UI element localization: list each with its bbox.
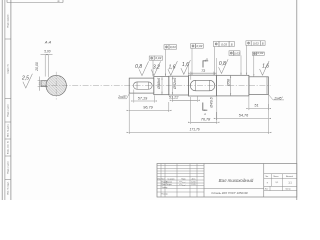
S2 internal diameter dim line: [161, 77, 163, 94]
svg-text:Т.контр.: Т.контр.: [162, 187, 169, 189]
tolerance frame F1: [149, 56, 154, 60]
roughness 3,2 on S2: [151, 61, 161, 75]
svg-text:Подп. и дата: Подп. и дата: [8, 104, 10, 117]
svg-text:Лист: Лист: [161, 178, 165, 180]
svg-text:Б: Б: [231, 42, 233, 46]
keyway width dim (top of A-A): [44, 55, 46, 77]
roughness 1,6 on S3/S4: [181, 60, 191, 74]
title block outline: [157, 164, 297, 198]
dim 73 (keyway S4 length, above): [190, 72, 192, 80]
svg-text:0,03: 0,03: [196, 44, 202, 48]
tolerance frame F4: [213, 41, 219, 46]
svg-text:51,22: 51,22: [169, 96, 179, 100]
svg-text:3,2: 3,2: [153, 64, 160, 70]
shaft section S6: [249, 77, 269, 95]
svg-text:Ø58: Ø58: [227, 78, 231, 87]
tolerance frame F5: [229, 51, 234, 56]
chamfer line at S6 right end: [266, 77, 268, 95]
shaft section S4: [188, 75, 216, 96]
svg-text:0,03: 0,03: [257, 51, 263, 55]
svg-text:Листов: Листов: [285, 189, 290, 191]
svg-text:0,03: 0,03: [221, 42, 227, 46]
svg-text:12.05: 12.05: [191, 181, 195, 183]
roughness 1,6 on S6: [260, 61, 270, 75]
dim 171,76 overall: [128, 112, 130, 134]
chamfer 2x45 right: [268, 94, 273, 100]
svg-text:Масштаб: Масштаб: [286, 176, 293, 178]
diameter dim inside S5: [230, 75, 232, 96]
svg-text:2х45°: 2х45°: [273, 96, 283, 100]
keyway on S1 (stadium): [133, 82, 152, 89]
svg-text:57,19: 57,19: [138, 96, 148, 100]
svg-text:А-А: А-А: [44, 41, 52, 45]
dim 96,79: [128, 93, 130, 112]
svg-text:2,5: 2,5: [21, 76, 29, 82]
svg-text:Масса: Масса: [274, 176, 279, 178]
roughness 0,8 on S1: [139, 61, 149, 75]
svg-text:5,00: 5,00: [44, 49, 50, 53]
svg-text:20,00: 20,00: [35, 62, 39, 72]
roughness 2,5 (section A-A): [23, 74, 33, 88]
title block horizontal lines (left part): [157, 165, 204, 167]
svg-text:Лит.: Лит.: [265, 176, 269, 178]
svg-text:Инв. № подл.: Инв. № подл.: [7, 181, 10, 194]
svg-text:0,03: 0,03: [234, 51, 240, 55]
svg-text:Подп. и дата: Подп. и дата: [8, 161, 10, 174]
svg-text:73: 73: [201, 69, 205, 73]
svg-text:Взам. инв. №: Взам. инв. №: [7, 140, 10, 154]
tolerance frame F2: [164, 45, 169, 50]
sheet outer edge (left double line): [1, 0, 3, 200]
svg-text:171,76: 171,76: [190, 127, 200, 131]
svg-text:Подп.: Подп.: [181, 178, 186, 180]
svg-text:0,8: 0,8: [135, 64, 142, 70]
svg-text:Инв. № дубл.: Инв. № дубл.: [7, 124, 10, 137]
svg-text:Дата: Дата: [192, 178, 196, 180]
material line (graph 3): [204, 188, 264, 190]
svg-text:1,6: 1,6: [262, 63, 269, 69]
section cut mark A (lower): [203, 103, 208, 111]
svg-text:А: А: [203, 112, 206, 116]
svg-text:0,03: 0,03: [253, 41, 259, 45]
keyway notch on section A-A: [41, 80, 48, 82]
title block right part lines: [264, 173, 297, 175]
svg-text:Иванов: Иванов: [166, 181, 172, 183]
tolerance frame F3: [191, 44, 196, 49]
top-left corner block (graph 26): [7, 2, 63, 4]
svg-text:Перв. примен.: Перв. примен.: [8, 13, 10, 27]
dim 51 (S6 length): [248, 96, 250, 110]
svg-text:Сталь 40Х ГОСТ 1050-99: Сталь 40Х ГОСТ 1050-99: [211, 191, 247, 195]
tolerance frame F7: [252, 52, 256, 55]
svg-text:Ø49,6: Ø49,6: [210, 96, 214, 108]
svg-text:Петров: Петров: [166, 184, 172, 186]
svg-text:0,03: 0,03: [155, 56, 161, 60]
svg-text:Вал тихоходный: Вал тихоходный: [219, 178, 254, 183]
svg-text:12.05: 12.05: [191, 184, 195, 186]
shaft section S3: [169, 76, 189, 95]
drawing frame right line: [296, 0, 298, 200]
svg-text:0,8: 0,8: [219, 61, 226, 67]
left margin column dividers: [5, 38, 11, 40]
roughness 0,8 on S5: [219, 59, 229, 73]
keyway on S4 (stadium): [190, 80, 215, 91]
dim 54,76 (S5+S6): [215, 112, 217, 120]
svg-text:2х45°: 2х45°: [117, 95, 127, 99]
svg-text:№ докум.: № докум.: [167, 177, 175, 180]
section A-A vertical center line: [55, 72, 57, 100]
S3 internal diameter dim line: [171, 77, 173, 95]
roughness 1,6 on S3: [168, 61, 178, 75]
svg-text:54,76: 54,76: [239, 114, 249, 118]
svg-text:Справ. №: Справ. №: [7, 64, 10, 74]
svg-text:0,03: 0,03: [170, 45, 176, 49]
signatures and dates smudges: [179, 181, 185, 183]
dim 76,78 (S4 length): [190, 97, 192, 124]
svg-text:51: 51: [254, 104, 258, 108]
svg-text:1,6: 1,6: [169, 64, 176, 70]
tolerance frame F6: [246, 41, 251, 46]
shaft section S5: [216, 75, 249, 96]
svg-text:Ø52n6: Ø52n6: [173, 77, 177, 90]
dim 57,19 (S1 keyway): [133, 90, 135, 103]
drawing frame left line: [10, 0, 12, 200]
svg-text:Н.контр.: Н.контр.: [162, 193, 169, 195]
svg-text:Б: Б: [262, 41, 264, 45]
svg-text:96,79: 96,79: [143, 106, 153, 110]
shaft section S2: [154, 77, 169, 95]
svg-text:Ø48k6: Ø48k6: [157, 77, 161, 90]
dim 51,22 (S3 length): [171, 96, 173, 102]
svg-text:76,78: 76,78: [201, 118, 211, 122]
keyway depth dim (left of A-A): [38, 80, 41, 82]
svg-text:А: А: [205, 57, 208, 61]
title block vertical lines: [203, 164, 205, 198]
chamfer 2x45 left: [127, 94, 130, 99]
center axis line: [41, 85, 271, 87]
shaft section S1: [129, 78, 154, 93]
svg-text:Лист: Лист: [265, 189, 269, 191]
svg-text:1,6: 1,6: [182, 62, 189, 68]
section cut mark A (upper): [203, 61, 208, 68]
